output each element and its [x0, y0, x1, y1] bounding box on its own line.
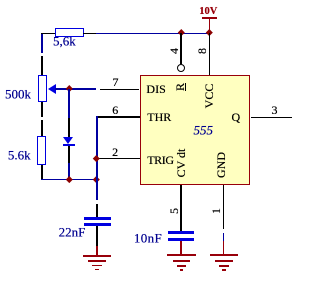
pin number 2 [112, 146, 118, 158]
pin 2 line [97, 158, 140, 160]
potentiometer wiper arrow [48, 84, 56, 94]
op IC U1 555 body [140, 75, 251, 185]
pin name Q [232, 111, 241, 123]
pin name GND (rotated) [215, 152, 227, 178]
pin number 1 [210, 208, 222, 214]
pin 5 line [180, 185, 182, 231]
capacitor C2 plate 2 [168, 238, 194, 241]
power 10V bar [202, 17, 217, 19]
resistor R3 bottom pin [41, 165, 43, 179]
power 10V stem [209, 19, 211, 34]
capacitor C2 plate 1 [168, 231, 194, 234]
junction TRIG [93, 155, 99, 161]
wire: pin1 to ground (blue bit) [223, 233, 225, 241]
pin 8 wire (vertical) [209, 33, 211, 75]
potentiometer R2 500k body [38, 75, 47, 102]
ground stem (C2) [180, 241, 182, 255]
pin name TRIG [147, 154, 173, 166]
pin name CVdt (rotated) [175, 148, 187, 177]
potentiometer R2 top pin [41, 56, 43, 75]
label 5.6k [8, 149, 31, 162]
pin number 4 [168, 48, 180, 54]
wire: top rail to VCC [96, 33, 210, 35]
ground stem (C1) [96, 246, 98, 256]
label 5,6k [53, 35, 76, 48]
label 500k [5, 87, 31, 100]
wire: top-left vertical from corner down toward pot [41, 33, 43, 54]
pin 4 wire (vertical) [180, 33, 182, 64]
label 10V [199, 7, 217, 18]
diode D1 triangle [63, 137, 73, 144]
overbar of R [185, 83, 186, 92]
resistor R1 left pin [41, 33, 55, 35]
junction at 10V/top rail [206, 29, 212, 35]
junction cap/bottom rail [93, 176, 99, 182]
wire: junction to pin7 [69, 88, 96, 90]
capacitor C1 top pin [96, 204, 98, 218]
ground (pin1) [210, 254, 239, 256]
pin number 3 [272, 104, 278, 116]
pin name DIS [146, 83, 165, 95]
pin 4 inversion circle [177, 64, 185, 72]
wiper wire to junction [55, 88, 70, 90]
junction at wiper node [66, 85, 72, 91]
resistor R3 5.6k body [37, 136, 46, 165]
pin name THR [147, 111, 171, 123]
pin number 7 [113, 76, 119, 88]
label 10nF [134, 232, 162, 245]
capacitor C1 plate 2 [84, 223, 111, 225]
ground stem (pin1) [223, 241, 225, 255]
resistor R1 right pin [83, 33, 97, 35]
wire: wiper node down to diode [68, 89, 70, 118]
pin name R (reset, rotated) [174, 83, 186, 91]
junction diode/bottom rail [66, 176, 72, 182]
capacitor C1 plate 1 [84, 217, 111, 219]
label 22nF [59, 226, 86, 239]
diode D1 top pin [68, 118, 70, 138]
pin name VCC (rotated) [203, 84, 215, 109]
pin 6 line [97, 116, 140, 118]
capacitor C1 bottom pin [96, 226, 98, 247]
diode D1 bottom pin [68, 146, 70, 163]
resistor R1 5,6k body [55, 28, 84, 37]
diode D1 cathode bar [63, 144, 75, 146]
pin number 5 [168, 208, 180, 214]
pin number 6 [112, 104, 118, 116]
potentiometer bottom pin [41, 102, 43, 116]
pin 1 line [223, 185, 225, 229]
junction at pin4/top rail [178, 29, 184, 35]
resistor R3 top pin [41, 120, 43, 136]
ground (C1) [83, 255, 112, 257]
pin number 8 [196, 48, 208, 54]
pin 3 line [251, 117, 293, 119]
ground (C2) [167, 254, 196, 256]
wire: THR/TRIG vertical link [96, 116, 98, 200]
wire: bottom rail [41, 179, 97, 181]
label 555 [194, 123, 214, 136]
pin 7 line [100, 89, 140, 91]
wire: diode to bottom rail [68, 163, 70, 180]
